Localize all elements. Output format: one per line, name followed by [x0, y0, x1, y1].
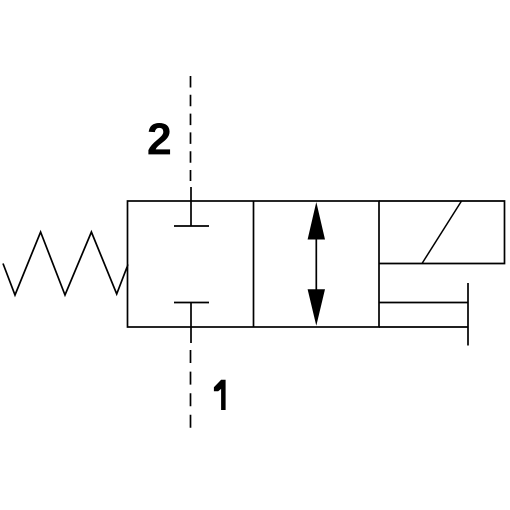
port label 2 — [148, 123, 170, 154]
blocked port symbol bottom (port 1) — [174, 303, 209, 344]
terminal bar — [467, 283, 469, 346]
flow arrow (double-headed) — [308, 202, 325, 326]
centerline port 1 (dashed) — [190, 350, 192, 428]
port label 1 — [214, 380, 226, 410]
solenoid diagonal — [422, 201, 462, 264]
centerline port 2 (dashed) — [190, 76, 192, 181]
wire lower (valve bottom edge extension) — [379, 326, 468, 328]
solenoid actuator box — [379, 201, 505, 264]
blocked port symbol top (port 2) — [174, 187, 209, 226]
spring — [3, 232, 128, 295]
valve body outline (two position squares) — [128, 201, 380, 327]
divider between position squares — [253, 201, 255, 327]
wire upper (solenoid lead) — [379, 302, 468, 304]
